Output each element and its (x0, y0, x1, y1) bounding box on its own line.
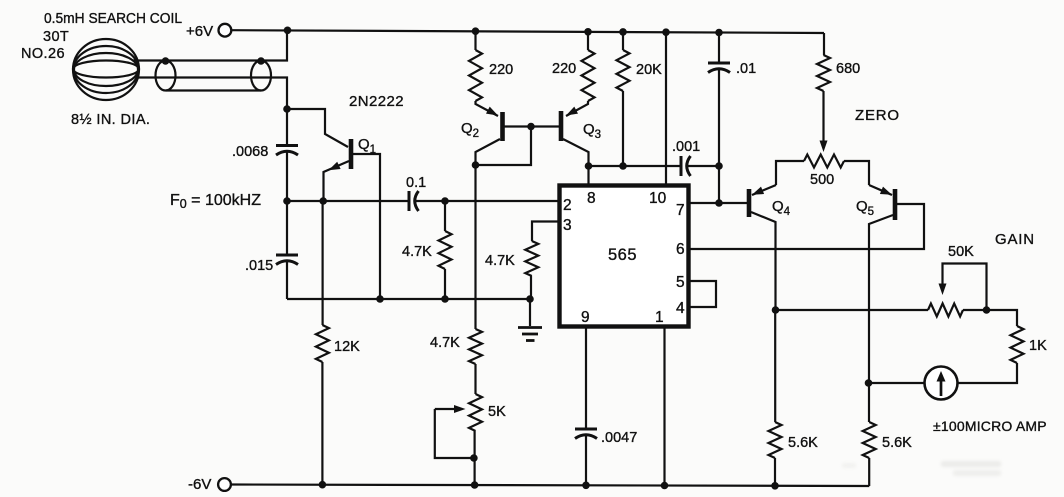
wire .015 bottom lead (286, 261, 288, 300)
svg-text:12K: 12K (334, 339, 360, 355)
wire .01 node to pin 7 node (718, 166, 720, 203)
svg-text:20K: 20K (636, 62, 662, 78)
junction .001 at .01 branch (715, 162, 723, 170)
wire .015 net (287, 298, 530, 300)
svg-text:9: 9 (581, 309, 590, 326)
wire 50K wiper loop (939, 264, 987, 311)
capacitor C1 .0068 (276, 146, 298, 156)
svg-text:10: 10 (649, 190, 667, 207)
junction meter line at Q5 collector (865, 379, 873, 387)
label 4.7K R10 (485, 253, 515, 269)
transistor Q4 emitter (752, 185, 776, 195)
junction 5K wiper tie (470, 454, 478, 462)
potentiometer R11 50K (928, 304, 963, 317)
inductor L1 search coil (73, 39, 139, 100)
junction F0 node (283, 197, 291, 205)
wire .0068 bottom lead (286, 151, 288, 201)
wire 5K bottom lead (473, 431, 476, 485)
transistor Q5 bar (893, 189, 898, 220)
capacitor C6 .0047 (575, 429, 597, 439)
svg-text:-6V: -6V (188, 476, 211, 493)
wire Q4 collector to 5.6K (774, 310, 776, 422)
label F0 = 100kHZ (170, 192, 261, 211)
svg-text:220: 220 (552, 61, 576, 77)
label NO.26 (21, 46, 65, 62)
label .015 (245, 258, 273, 274)
label 2N2222 (349, 93, 404, 110)
junction shield right (257, 57, 265, 65)
transistor Q4 bar (747, 189, 752, 217)
wire F0 line left (287, 200, 409, 202)
wire .0047 bottom lead (585, 435, 587, 486)
junction top rail at 20K (619, 28, 627, 36)
svg-text:.0068: .0068 (232, 144, 268, 160)
svg-text:5: 5 (676, 274, 685, 291)
svg-text:4.7K: 4.7K (402, 244, 432, 260)
pin 8 label (587, 190, 596, 207)
transistor Q2 bar (500, 112, 505, 141)
cable shield ring left (156, 61, 176, 91)
junction top rail at pin 10 wire (662, 28, 670, 36)
wire cable center conductor (138, 78, 287, 110)
wire Q2 Q3 base link (505, 125, 560, 127)
meter M1 needle (937, 371, 946, 396)
junction 4.7K R2 at 299 (441, 295, 449, 303)
resistor R8 680 (817, 55, 830, 91)
label -6V (188, 476, 211, 493)
label 220 R3 (489, 62, 513, 78)
wire Q1 base feed (287, 109, 348, 147)
svg-text:8½ IN. DIA.: 8½ IN. DIA. (71, 112, 150, 128)
junction pin 7 node (715, 199, 723, 207)
resistor R7 20K (617, 32, 630, 166)
pin 10 label (649, 190, 667, 207)
label 0.1 (406, 175, 426, 191)
wire R4 to 5K pot (474, 364, 476, 394)
junction pin 1 at bottom rail (661, 482, 669, 490)
resistor R14 5.6K (769, 422, 782, 458)
pin 3 label (563, 217, 572, 234)
label 50K (948, 244, 974, 260)
svg-text:1: 1 (655, 309, 664, 326)
pin 4 label (676, 300, 685, 317)
wire pin 10 to rail (665, 32, 667, 185)
wire 500 left lead (776, 161, 804, 185)
wire .015 top lead (286, 201, 288, 255)
label 20K (636, 62, 662, 78)
label 565 (608, 246, 637, 264)
label meter range (933, 418, 1047, 434)
svg-text:±100MICRO AMP: ±100MICRO AMP (933, 418, 1047, 434)
wire Q5 base to pin 6 (688, 204, 924, 249)
svg-text:NO.26: NO.26 (21, 46, 65, 62)
wire 50K to 1K (963, 310, 1017, 326)
label 5K (488, 404, 506, 420)
label Q1 (358, 136, 376, 156)
transistor Q3 emitter (566, 101, 588, 116)
junction 20K bottom (619, 162, 627, 170)
svg-text:8: 8 (587, 190, 596, 207)
label Q5 (856, 198, 874, 218)
wire Q2 diode connection (476, 127, 532, 166)
svg-text:500: 500 (810, 172, 834, 188)
resistor R10 4.7K (525, 241, 538, 276)
junction top rail at 220 R6 (584, 28, 592, 36)
junction Q2 collector node (472, 161, 480, 169)
label 4.7K R2 (402, 244, 432, 260)
wire 1K to meter (958, 363, 1018, 383)
wire 4.7K R2 top lead (444, 201, 446, 231)
ground symbol (518, 299, 542, 341)
wire pin 5 to pin 4 loop (690, 281, 716, 307)
resistor R4 4.7K (469, 329, 482, 364)
label 12K (334, 339, 360, 355)
wire .01 bottom lead (718, 69, 720, 167)
wire meter to Q5 collector (868, 382, 925, 384)
svg-text:+6V: +6V (186, 23, 213, 40)
svg-text:.0047: .0047 (601, 430, 637, 446)
svg-text:GAIN: GAIN (995, 231, 1035, 248)
capacitor C2 .015 (276, 255, 298, 265)
label ZERO (855, 107, 900, 124)
label 5.6K R14 (788, 435, 818, 451)
junction top rail at 220 R3 (472, 27, 480, 35)
wire 0.1 to pin 2 (415, 200, 559, 202)
svg-text:4.7K: 4.7K (485, 253, 515, 269)
svg-text:4.7K: 4.7K (430, 335, 460, 351)
svg-text:5.6K: 5.6K (882, 435, 912, 451)
svg-text:.01: .01 (736, 61, 756, 77)
wire R10 bottom lead (530, 276, 532, 299)
label 220 R6 (552, 61, 576, 77)
svg-text:2N2222: 2N2222 (349, 93, 404, 110)
transistor Q1 emitter (324, 161, 350, 201)
junction R14 at bottom rail (771, 482, 779, 490)
label Q2 (461, 120, 479, 140)
resistor R6 220 (582, 32, 595, 102)
svg-text:5.6K: 5.6K (788, 435, 818, 451)
wire mirror output net (589, 165, 682, 167)
wire top rail drop to 680 (823, 33, 825, 55)
pin 5 label (676, 274, 685, 291)
resistor R3 220 (469, 31, 482, 101)
label 1K (1029, 338, 1047, 354)
svg-text:2: 2 (563, 197, 572, 214)
label .0068 (232, 144, 268, 160)
junction 50K right tie (983, 306, 991, 314)
wire .001 to .01 node (687, 165, 719, 167)
svg-text:5K: 5K (488, 404, 506, 420)
label 8.5 in dia (71, 112, 150, 128)
terminal -6V (218, 478, 231, 491)
terminal +6V (219, 24, 232, 37)
label 4.7K R4 (430, 335, 460, 351)
cable shield ring right (251, 61, 271, 91)
junction Q2 base tie (527, 123, 535, 131)
label .01 (736, 61, 756, 77)
wire pin 1 lead (663, 327, 665, 485)
wire Q5 collector to 5.6K (868, 383, 870, 422)
wire .01 top lead (718, 33, 720, 64)
wire cable shield top conductor (133, 30, 287, 60)
svg-text:220: 220 (489, 62, 513, 78)
transistor Q5 collector (869, 215, 893, 383)
wire Q1 collector (353, 154, 380, 299)
pin 7 label (676, 202, 685, 219)
svg-text:0.5mH SEARCH COIL: 0.5mH SEARCH COIL (44, 11, 182, 27)
wire .0068 top lead (286, 109, 288, 146)
wire Q2 collector down (474, 165, 476, 329)
junction node cable to Q1 base (283, 105, 291, 113)
pin 6 label (676, 241, 685, 258)
svg-text:565: 565 (608, 246, 637, 264)
wire R13 bottom lead (868, 458, 870, 486)
wire gain line (776, 309, 929, 311)
label search coil value (44, 11, 182, 27)
junction 5K at bottom rail (471, 481, 479, 489)
junction shield left (162, 57, 170, 65)
junction 4.7K top (441, 197, 449, 205)
wire Q3 collector to pin 8 (587, 166, 589, 185)
junction Q1 emitter on F0 line (319, 197, 327, 205)
svg-text:3: 3 (563, 217, 572, 234)
svg-text:4: 4 (676, 300, 685, 317)
svg-text:680: 680 (836, 61, 860, 77)
resistor R13 5.6K (863, 422, 876, 458)
svg-text:50K: 50K (948, 244, 974, 260)
transistor Q2 collector (476, 139, 501, 165)
junction top rail at .01 (715, 29, 723, 37)
svg-text:ZERO: ZERO (855, 107, 900, 124)
svg-text:1K: 1K (1029, 338, 1047, 354)
meter M1 body (925, 367, 958, 400)
label 500 (810, 172, 834, 188)
svg-text:.015: .015 (245, 258, 273, 274)
transistor Q2 emitter (476, 101, 499, 116)
transistor Q5 emitter (869, 185, 892, 195)
wire 4.7K R2 bottom lead (444, 269, 446, 299)
capacitor C3 0.1 (409, 191, 419, 211)
wire Q1 emitter to 12K (322, 201, 324, 325)
resistor R12 1K (1011, 326, 1024, 363)
wire +6V top rail (232, 30, 825, 33)
potentiometer R5 5K (469, 394, 482, 431)
wire pin 9 lead (585, 327, 587, 429)
label .0047 (601, 430, 637, 446)
pot 5K wiper (435, 405, 474, 458)
svg-text:.001: .001 (672, 139, 700, 155)
label 30T (43, 29, 69, 45)
transistor Q3 bar (559, 111, 564, 141)
wire 12K bottom lead (321, 362, 323, 485)
wire 680 to zero pot wiper (820, 91, 828, 152)
label .001 (672, 139, 700, 155)
pin 1 label (655, 309, 664, 326)
label Q3 (583, 121, 601, 141)
wire pin 7 to Q4 base (688, 202, 747, 204)
capacitor C4 .001 (681, 156, 691, 176)
junction 12K at bottom rail (319, 481, 327, 489)
junction .0047 at bottom rail (582, 482, 590, 490)
junction Q3 collector node (585, 162, 593, 170)
svg-text:7: 7 (676, 202, 685, 219)
label GAIN (995, 231, 1035, 248)
transistor Q4 collector (751, 212, 776, 310)
transistor Q1 bar (349, 139, 354, 169)
svg-text:0.1: 0.1 (406, 175, 426, 191)
potentiometer R9 500 (804, 155, 844, 168)
transistor Q3 collector (563, 139, 589, 166)
wire R14 bottom lead (774, 458, 776, 485)
pin 2 label (563, 197, 572, 214)
resistor R2 4.7K (439, 231, 452, 269)
resistor R1 12K (316, 325, 329, 362)
wire pin 3 lead (532, 222, 559, 242)
wire -6V bottom rail (231, 485, 869, 487)
wire cable shield bottom (166, 89, 261, 91)
junction Q4 collector at gain line (772, 306, 780, 314)
label 5.6K R13 (882, 435, 912, 451)
IC U1 565 body (560, 186, 689, 327)
junction top rail at coil branch (284, 27, 292, 35)
svg-text:6: 6 (676, 241, 685, 258)
capacitor C5 .01 (708, 63, 730, 73)
junction ground node (526, 295, 534, 303)
label +6V (186, 23, 213, 40)
label Q4 (772, 198, 791, 218)
pin 9 label (581, 309, 590, 326)
junction Q1 collector at 299 (376, 295, 384, 303)
label 680 (836, 61, 860, 77)
svg-text:30T: 30T (43, 29, 69, 45)
wire 500 right lead (844, 161, 869, 185)
